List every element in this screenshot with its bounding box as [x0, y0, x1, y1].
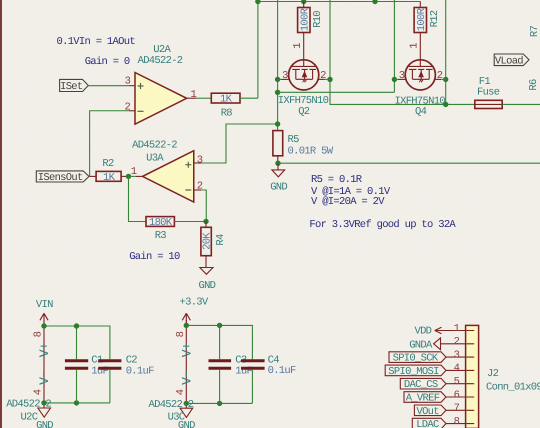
ground below U2C [36, 408, 53, 428]
svg-text:5: 5 [454, 376, 460, 388]
svg-text:SPI0_SCK: SPI0_SCK [393, 353, 439, 365]
wire R10 to Q2 gate top [303, 33, 305, 60]
svg-text:7: 7 [454, 403, 460, 415]
J2 pin wires 3-8 [446, 357, 466, 424]
svg-text:1: 1 [190, 89, 196, 101]
resistor R5 [273, 131, 283, 164]
svg-text:4: 4 [175, 389, 187, 395]
svg-text:Gain = 10: Gain = 10 [129, 251, 180, 263]
global label ISensOut [36, 171, 89, 184]
junction Q2 source pin [275, 77, 280, 82]
svg-text:R6: R6 [528, 79, 540, 91]
svg-text:Gain = 0: Gain = 0 [85, 56, 130, 68]
svg-text:2: 2 [437, 70, 443, 82]
svg-text:V−: V− [180, 370, 195, 385]
ground below U3C [178, 408, 195, 428]
junction U3C V- node [184, 401, 189, 406]
capacitor C2 [98, 361, 121, 369]
svg-text:R12: R12 [429, 10, 441, 27]
svg-text:3: 3 [197, 154, 203, 166]
svg-text:VOut: VOut [416, 406, 439, 418]
svg-text:U3A: U3A [146, 152, 164, 164]
junction Q4 source pin [392, 77, 397, 82]
wire node down to R3 [129, 176, 147, 221]
junction top rail stub [372, 0, 377, 4]
resistor R3 [146, 217, 206, 227]
svg-text:SPI0_MOSI: SPI0_MOSI [388, 366, 439, 378]
svg-text:20K: 20K [202, 232, 214, 250]
svg-text:3: 3 [454, 349, 460, 361]
svg-text:V+: V+ [180, 342, 195, 357]
wire U3A pin 3 to R5 top net [201, 124, 278, 163]
svg-text:GND: GND [36, 420, 53, 428]
wire Q4 drain vertical [445, 0, 447, 104]
svg-text:6: 6 [454, 389, 460, 401]
resistor R8 [196, 93, 258, 103]
svg-text:2: 2 [124, 102, 130, 114]
junction U3C V+ node [184, 323, 189, 328]
wire R8 riser to top rail [257, 2, 259, 99]
svg-text:VIN: VIN [36, 299, 53, 311]
svg-text:R8: R8 [221, 107, 233, 119]
wire U3A pin 2 to R3/R4 node [201, 190, 206, 221]
global label A_VREF [404, 392, 446, 405]
junction V- node [41, 400, 46, 405]
svg-text:R4: R4 [215, 234, 227, 246]
global label SPI0_SCK [389, 352, 446, 365]
capacitor C1 [65, 326, 88, 403]
svg-text:3: 3 [282, 70, 288, 82]
svg-text:V−: V− [37, 370, 52, 385]
svg-text:U3C: U3C [168, 412, 185, 424]
svg-text:AD4522-2: AD4522-2 [132, 139, 177, 151]
svg-text:V @I=20A = 2V: V @I=20A = 2V [311, 196, 385, 208]
junction top rail at R10 [301, 0, 306, 4]
junction Q4 drain pin [443, 77, 448, 82]
svg-text:U2C: U2C [21, 411, 38, 423]
svg-text:GND: GND [198, 280, 215, 292]
junction C3 bottom [217, 401, 222, 406]
capacitor C3 [209, 325, 232, 403]
resistor R12 [414, 2, 426, 33]
J2 pin ticks inside body [466, 331, 474, 424]
junction sense tap [275, 121, 280, 126]
wire source rail [278, 91, 395, 93]
svg-text:100R: 100R [416, 7, 428, 31]
svg-text:Fuse: Fuse [477, 87, 500, 99]
svg-text:+3.3V: +3.3V [180, 296, 209, 308]
svg-text:ISensOut: ISensOut [38, 172, 83, 184]
resistor R2 [90, 171, 129, 181]
svg-text:GND: GND [270, 182, 287, 194]
ground below R4 [198, 268, 215, 292]
wire U2C top rail [44, 326, 110, 403]
svg-text:2: 2 [454, 336, 460, 348]
svg-text:1K: 1K [220, 94, 233, 106]
svg-text:AD4522-2: AD4522-2 [149, 399, 194, 411]
ground below R5 [270, 163, 287, 194]
svg-text:180K: 180K [149, 217, 173, 229]
svg-text:0.1uF: 0.1uF [126, 366, 154, 378]
wire ground rail [278, 162, 540, 164]
svg-text:V+: V+ [37, 342, 52, 357]
svg-text:8: 8 [33, 331, 45, 337]
svg-text:VDD: VDD [414, 326, 431, 338]
svg-text:R2: R2 [102, 158, 114, 170]
global label VOut [414, 405, 446, 418]
wire R12 to Q4 gate top [419, 33, 421, 60]
svg-text:0.1VIn = 1AOut: 0.1VIn = 1AOut [57, 36, 136, 48]
fuse F1 [475, 100, 540, 108]
transistor Q4 [394, 60, 445, 90]
capacitor C4 [241, 361, 265, 369]
svg-text:100R: 100R [299, 7, 311, 31]
global label SPI0_MOSI [385, 365, 446, 378]
svg-text:0.1uF: 0.1uF [268, 365, 296, 377]
svg-text:Q4: Q4 [415, 106, 427, 118]
svg-text:GNDA: GNDA [409, 339, 433, 351]
global label VLoad [494, 54, 529, 67]
svg-text:R5 = 0.1R: R5 = 0.1R [311, 174, 363, 186]
svg-text:IXFH75N10: IXFH75N10 [278, 95, 329, 107]
resistor R4 [201, 221, 211, 267]
svg-text:1K: 1K [103, 172, 116, 184]
wire Q2 drain vertical to fuse net [330, 0, 475, 104]
svg-text:2: 2 [197, 181, 203, 193]
svg-text:AD4522-2: AD4522-2 [6, 399, 51, 411]
wire source sense vertical [277, 0, 279, 131]
wire Q4 source vertical [393, 0, 395, 92]
svg-text:C2: C2 [126, 354, 138, 366]
power symbol +3.3V [180, 296, 209, 326]
op-amp U2C power pins [43, 320, 45, 408]
svg-text:1: 1 [454, 323, 460, 335]
wire ISet to U2A pin 3 [88, 85, 128, 87]
svg-text:J2: J2 [487, 368, 499, 380]
svg-text:3: 3 [399, 70, 405, 82]
junction C3 top [217, 323, 222, 328]
junction R5 bottom [275, 161, 280, 166]
transistor Q2 [278, 60, 330, 90]
svg-text:4: 4 [454, 363, 460, 375]
svg-text:ISet: ISet [60, 81, 83, 93]
junction R3/R4 node [203, 219, 208, 224]
op-amp U2A [129, 73, 196, 125]
svg-text:A_VREF: A_VREF [406, 393, 440, 405]
junction V+ node [41, 323, 46, 328]
sheet border [0, 0, 2, 428]
svg-text:For 3.3VRef good up to 32A: For 3.3VRef good up to 32A [309, 219, 456, 231]
svg-text:R3: R3 [155, 230, 167, 242]
op-amp U3C power pins [185, 320, 187, 408]
svg-text:0.01R 5W: 0.01R 5W [288, 146, 334, 158]
global label ISet [60, 79, 89, 93]
global label DAC_CS [400, 378, 446, 391]
connector J2 [466, 325, 479, 428]
svg-text:8: 8 [175, 331, 187, 337]
resistor R10 [298, 2, 310, 33]
svg-text:Q2: Q2 [298, 106, 310, 118]
power symbol VIN [36, 299, 53, 326]
wire top gate rail [258, 1, 420, 3]
wire U3A output to node [129, 175, 137, 177]
svg-text:Conn_01x09: Conn_01x09 [486, 381, 540, 393]
wire U3C rails [186, 325, 252, 403]
junction Q2 drain pin [327, 77, 332, 82]
svg-text:1: 1 [292, 43, 304, 49]
svg-text:8: 8 [454, 416, 460, 428]
svg-text:R10: R10 [312, 11, 324, 28]
svg-text:2: 2 [320, 70, 326, 82]
svg-text:R5: R5 [288, 134, 300, 146]
J2 pin 2 wire with open arrow [434, 338, 466, 350]
svg-text:4: 4 [33, 389, 45, 395]
svg-text:R7: R7 [529, 26, 540, 38]
wire U2A pin 2 to ISensOut node [90, 111, 129, 177]
J2 pin 1 wire with arrow [435, 327, 466, 334]
global label LDAC [412, 418, 446, 428]
junction source rail left [275, 90, 280, 95]
junction C1 bottom [74, 400, 79, 405]
svg-text:AD4522-2: AD4522-2 [138, 55, 183, 67]
svg-text:DAC_CS: DAC_CS [404, 379, 438, 391]
junction drain net at fuse wire [443, 102, 448, 107]
svg-text:VLoad: VLoad [495, 55, 523, 67]
junction C1 top [74, 323, 79, 328]
op-amp U3A (mirrored) [136, 151, 201, 202]
svg-text:1: 1 [408, 43, 420, 49]
svg-text:LDAC: LDAC [416, 419, 439, 428]
junction top rail at R8 riser [255, 0, 260, 4]
junction R2 output node [126, 174, 131, 179]
